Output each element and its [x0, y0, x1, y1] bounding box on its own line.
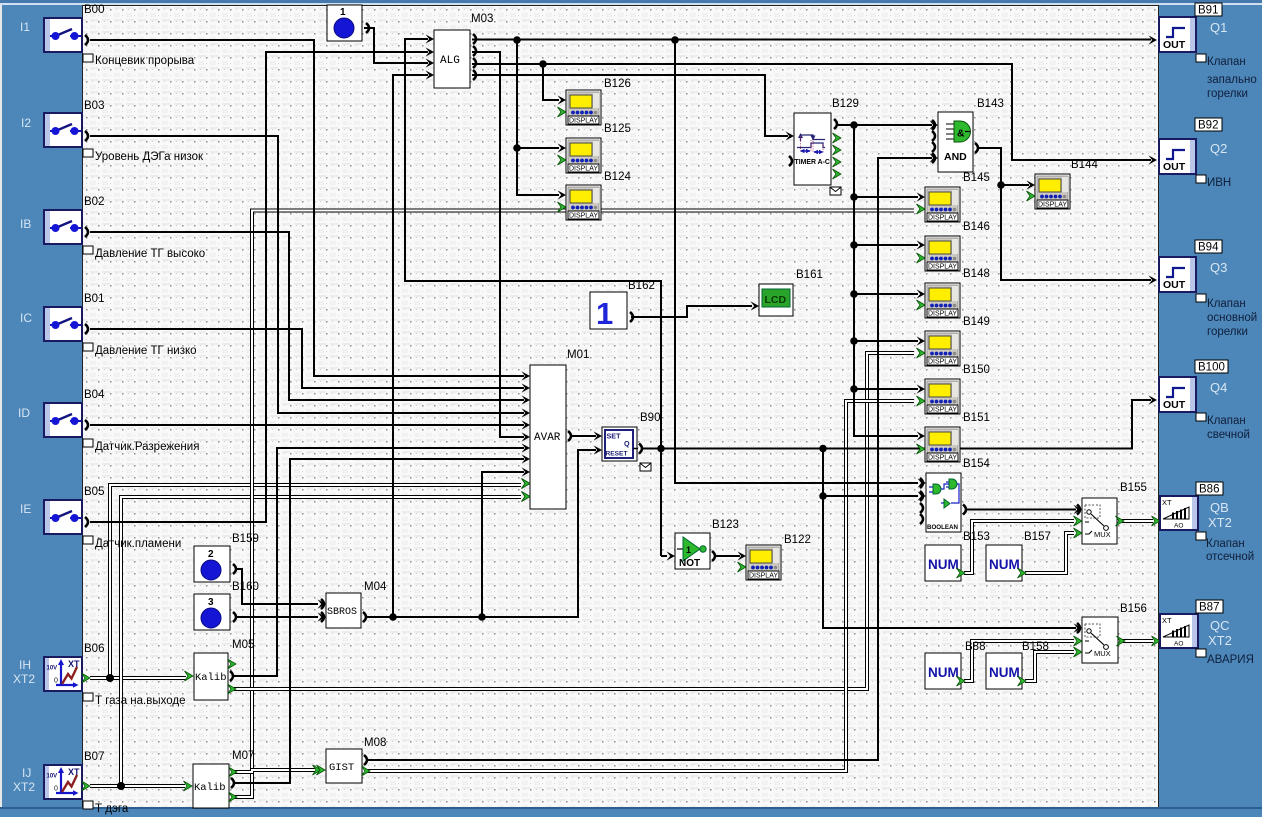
- output Q2 block: [1159, 118, 1231, 189]
- svg-text:B125: B125: [604, 123, 631, 135]
- svg-text:TIMER A-C: TIMER A-C: [795, 159, 830, 166]
- svg-text:B92: B92: [1198, 120, 1218, 132]
- svg-text:QB: QB: [1210, 500, 1229, 515]
- svg-text:B100: B100: [1198, 362, 1225, 374]
- svg-text:запально: запально: [1207, 74, 1257, 86]
- svg-text:M01: M01: [567, 349, 589, 361]
- svg-text:2: 2: [208, 549, 214, 560]
- svg-text:B161: B161: [796, 269, 823, 281]
- svg-text:B01: B01: [84, 293, 104, 305]
- wire ALG out1 branch to BOOLEAN input1: [671, 36, 926, 487]
- top window strip: [0, 0, 1262, 3]
- selector MUX B155: [1074, 482, 1147, 544]
- LCD indicator B161: [759, 269, 823, 316]
- input IB discrete switch block: [20, 196, 205, 260]
- svg-text:B145: B145: [963, 172, 990, 184]
- wire ID B04 to AVAR input5: [90, 420, 530, 429]
- svg-text:Q: Q: [624, 439, 630, 448]
- svg-text:XT2: XT2: [1208, 515, 1232, 530]
- svg-text:XT2: XT2: [1208, 633, 1232, 648]
- DISPLAY B126: [558, 78, 631, 125]
- wire SBROS branch riser to ALG input4: [393, 70, 434, 617]
- wire RS B90 net riser to ALG input1 and NOT B123: [405, 34, 675, 560]
- svg-text:RESET: RESET: [606, 451, 628, 458]
- DISPLAY B148: [917, 268, 990, 318]
- svg-text:ALG: ALG: [440, 55, 460, 67]
- canvas top border: [82, 5, 1159, 6]
- wire ALG out2 to AVAR input6: [472, 52, 530, 442]
- left IO panel: [2, 5, 82, 807]
- svg-text:B159: B159: [232, 533, 259, 545]
- svg-text:B149: B149: [963, 316, 990, 328]
- svg-text:горелки: горелки: [1207, 326, 1248, 338]
- svg-text:XT2: XT2: [13, 672, 35, 686]
- input IC discrete switch block: [20, 293, 197, 357]
- svg-text:MUX: MUX: [1094, 530, 1111, 539]
- wire const B159 to SBROS input1: [236, 569, 326, 609]
- output QC XT2 analog output block: [1160, 600, 1254, 666]
- svg-text:B86: B86: [1199, 484, 1219, 496]
- svg-text:1: 1: [686, 545, 691, 555]
- svg-text:ID: ID: [18, 406, 30, 420]
- svg-text:Kalib: Kalib: [194, 782, 226, 794]
- svg-text:Q3: Q3: [1210, 260, 1227, 275]
- input ID discrete switch block: [18, 389, 199, 453]
- svg-text:SBROS: SBROS: [327, 607, 357, 618]
- analog wire Kalib M07 out3 to DISPLAY B145 value input: [234, 211, 914, 798]
- svg-text:B07: B07: [84, 751, 104, 763]
- bottom scrollbar strip: [0, 807, 1262, 817]
- svg-text:B148: B148: [963, 268, 990, 280]
- svg-text:3: 3: [208, 597, 214, 608]
- svg-text:B05: B05: [84, 486, 104, 498]
- wire SBROS M04 out to RS B90 RESET: [365, 445, 602, 620]
- wire IB B02 to AVAR input3: [90, 232, 530, 405]
- svg-text:IH: IH: [19, 658, 31, 672]
- logic gate NOT B123: [675, 519, 739, 569]
- output Q1 block: [1159, 3, 1257, 100]
- input I1 discrete switch block: [20, 4, 195, 67]
- svg-text:SET: SET: [607, 432, 622, 441]
- svg-text:IC: IC: [20, 311, 32, 325]
- svg-text:B151: B151: [963, 412, 990, 424]
- constant NUM B158: [986, 641, 1049, 689]
- input IE discrete switch block: [20, 486, 181, 550]
- svg-text:Клапан: Клапан: [1206, 538, 1245, 550]
- svg-text:GIST: GIST: [329, 762, 354, 774]
- svg-text:1: 1: [340, 7, 346, 18]
- left panel edge line: [0, 5, 2, 807]
- DISPLAY B146: [917, 221, 990, 271]
- RS trigger B90 SET Q RESET: [602, 412, 660, 471]
- wire I2 B03 to AVAR input4: [90, 136, 530, 418]
- svg-text:Q1: Q1: [1210, 20, 1227, 35]
- svg-text:M07: M07: [232, 750, 254, 762]
- DISPLAY B149: [917, 316, 990, 366]
- function block BOOLEAN B154: [920, 458, 990, 532]
- svg-text:B02: B02: [84, 196, 104, 208]
- macro block SBROS M04: [321, 581, 387, 628]
- canvas left border: [82, 5, 83, 807]
- svg-text:Давление ТГ низко: Давление ТГ низко: [95, 345, 197, 357]
- wire BOOLEAN B154 out to MUX B155 input1: [966, 505, 1082, 514]
- wire ALG out1 to Q1 with trunk branches: [472, 35, 1157, 44]
- output Q4 block: [1159, 360, 1250, 441]
- constant NUM B157: [986, 531, 1051, 581]
- output Q3 block: [1159, 240, 1257, 338]
- svg-text:Концевик прорыва: Концевик прорыва: [95, 55, 195, 67]
- wire GIST M08 out1 to AND B143 input4: [366, 153, 938, 760]
- svg-text:B90: B90: [640, 412, 660, 424]
- wire RS B90 net branch to BOOLEAN input2 and MUX B156 input1: [819, 449, 1082, 633]
- svg-text:AVAR: AVAR: [534, 432, 561, 444]
- svg-text:Q4: Q4: [1210, 380, 1227, 395]
- svg-text:M04: M04: [364, 581, 387, 593]
- analog wire MUX B156 out to QC analog output: [1122, 636, 1160, 646]
- svg-text:MUX: MUX: [1094, 649, 1111, 658]
- DISPLAY B125: [558, 123, 631, 173]
- wire trunk to DISPLAY column B145 B146 B148 B149 B150 B151: [850, 125, 925, 441]
- wire Kalib M05 out2 to AVAR input7: [234, 443, 530, 676]
- svg-text:B126: B126: [604, 78, 631, 90]
- output QB XT2 analog output block: [1160, 482, 1254, 563]
- svg-text:Клапан: Клапан: [1207, 415, 1246, 427]
- input IJ XT2 analog input block: [13, 751, 129, 815]
- constant block B000 value 1: [327, 5, 369, 41]
- svg-text:B124: B124: [604, 171, 631, 183]
- svg-text:B123: B123: [712, 519, 739, 531]
- svg-text:B88: B88: [965, 641, 985, 653]
- analog wire IH B06 to Kalib M05 and AVAR slow input1: [90, 479, 530, 683]
- analog wire NUM B88 to MUX B156 input2: [964, 641, 1074, 681]
- function block TIMER A-C B129: [789, 98, 859, 195]
- wire ALG out3 branch to DISPLAY B126: [539, 60, 566, 104]
- wire ALG out4 to TIMER B129 input: [472, 75, 794, 141]
- svg-text:NOT: NOT: [679, 558, 700, 569]
- DISPLAY B150: [917, 364, 990, 414]
- input IH XT2 analog input block: [13, 643, 185, 707]
- svg-text:B143: B143: [977, 98, 1004, 110]
- svg-text:B06: B06: [84, 643, 104, 655]
- svg-text:Датчик.Разрежения: Датчик.Разрежения: [95, 441, 199, 453]
- wire AVAR M01 out to RS trigger B90 SET: [570, 431, 602, 440]
- DISPLAY B144: [1027, 159, 1099, 209]
- analog wire Kalib M07 out1 to GIST input: [234, 765, 321, 775]
- DISPLAY B122: [738, 534, 811, 580]
- analog wire NUM B153 to MUX B155 input2: [964, 521, 1074, 573]
- svg-text:B154: B154: [963, 458, 990, 470]
- wire SBROS branch riser to AVAR input9: [482, 467, 530, 617]
- analog wire NUM B157 to MUX B155 input3: [1025, 533, 1074, 573]
- wire Kalib M07 out2 to AVAR input8: [235, 454, 530, 783]
- svg-text:BOOLEAN: BOOLEAN: [927, 524, 958, 531]
- svg-text:I1: I1: [20, 20, 30, 34]
- svg-text:Давление ТГ высоко: Давление ТГ высоко: [95, 248, 205, 260]
- svg-text:AND: AND: [944, 151, 967, 163]
- svg-text:B94: B94: [1198, 242, 1219, 254]
- svg-text:B00: B00: [84, 4, 104, 16]
- macro block Kalib M05: [185, 639, 255, 700]
- wire AND B143 out to Q3 and DISPLAY B144: [978, 148, 1157, 285]
- DISPLAY B151: [917, 412, 990, 462]
- wire NOT B123 out to DISPLAY B122: [714, 551, 746, 560]
- analog wire MUX B155 out to QB analog output: [1122, 516, 1160, 526]
- svg-text:ИВН: ИВН: [1207, 177, 1231, 189]
- svg-text:M05: M05: [232, 639, 254, 651]
- wire ALG out1 branch to DISPLAY B125 and B124: [513, 36, 566, 199]
- svg-text:B153: B153: [963, 531, 990, 543]
- wire IC B01 to AVAR input2: [90, 329, 530, 393]
- svg-text:M03: M03: [471, 13, 493, 25]
- svg-text:отсечной: отсечной: [1206, 551, 1254, 563]
- macro block GIST M08: [317, 737, 387, 783]
- svg-text:B122: B122: [784, 534, 811, 546]
- svg-text:B146: B146: [963, 221, 990, 233]
- svg-text:B158: B158: [1022, 641, 1049, 653]
- svg-text:B87: B87: [1199, 602, 1219, 614]
- wire IE B05 to ALG input2: [90, 47, 434, 522]
- macro block AVAR M01: [522, 349, 590, 509]
- constant block B160 value 3: [194, 581, 259, 630]
- svg-text:B03: B03: [84, 100, 104, 112]
- svg-text:Kalib: Kalib: [195, 672, 227, 684]
- wire RS B90 Q out to MUX area and Q4: [642, 395, 1157, 452]
- svg-text:B04: B04: [84, 389, 105, 401]
- svg-text:горелки: горелки: [1207, 88, 1248, 100]
- wire ALG out3 to Q2: [472, 64, 1157, 165]
- svg-text:B160: B160: [232, 581, 259, 593]
- wire const B160 to SBROS input2: [236, 612, 326, 621]
- svg-text:B150: B150: [963, 364, 990, 376]
- svg-text:XT2: XT2: [13, 780, 35, 794]
- wire const B000 to ALG input3: [364, 28, 434, 68]
- DISPLAY B145: [917, 172, 990, 222]
- svg-text:B91: B91: [1198, 5, 1218, 17]
- svg-text:QC: QC: [1210, 618, 1230, 633]
- svg-text:Клапан: Клапан: [1207, 56, 1246, 68]
- function block ALG M03: [434, 13, 493, 88]
- svg-text:B144: B144: [1071, 159, 1098, 171]
- svg-text:LCD: LCD: [765, 294, 787, 306]
- svg-text:IE: IE: [20, 502, 31, 516]
- canvas right border: [1158, 5, 1159, 807]
- svg-text:&: &: [957, 128, 965, 140]
- svg-text:B129: B129: [832, 98, 859, 110]
- input I2 discrete switch block: [21, 100, 204, 163]
- svg-text:B156: B156: [1120, 603, 1147, 615]
- DISPLAY B124: [558, 171, 632, 220]
- svg-text:Q2: Q2: [1210, 141, 1227, 156]
- wire I1 B00 to AVAR input1: [90, 40, 530, 381]
- svg-text:I2: I2: [21, 116, 31, 130]
- svg-text:B157: B157: [1024, 531, 1051, 543]
- macro block Kalib M07: [184, 750, 255, 808]
- svg-text:Т дэга: Т дэга: [95, 803, 129, 815]
- svg-text:IB: IB: [20, 217, 31, 231]
- right IO panel: [1159, 5, 1262, 807]
- selector MUX B156: [1074, 603, 1147, 663]
- constant block B162 value 1: [590, 280, 655, 331]
- constant NUM B153: [925, 531, 990, 581]
- svg-text:B155: B155: [1120, 482, 1147, 494]
- logic gate AND B143: [932, 98, 1004, 172]
- svg-text:IJ: IJ: [22, 766, 31, 780]
- svg-text:Датчик.пламени: Датчик.пламени: [95, 538, 181, 550]
- svg-text:АВАРИЯ: АВАРИЯ: [1207, 654, 1254, 666]
- svg-text:Клапан: Клапан: [1207, 298, 1246, 310]
- analog wire Kalib M05 out3 to DISPLAY B149 value input: [234, 353, 914, 689]
- analog wire GIST M08 out2 to DISPLAY B150 value input: [366, 401, 914, 771]
- svg-text:M08: M08: [364, 737, 386, 749]
- wire const B162 to LCD B161: [631, 301, 759, 317]
- svg-text:свечной: свечной: [1207, 429, 1250, 441]
- constant block B159 value 2: [194, 533, 259, 582]
- analog wire IJ B07 to Kalib M07 and AVAR slow input2: [90, 492, 530, 791]
- svg-text:1: 1: [596, 296, 613, 331]
- wire TIMER B129 out to AND B143 input1: [838, 120, 938, 129]
- constant NUM B88: [925, 641, 985, 689]
- analog wire NUM B158 to MUX B156 input3: [1025, 652, 1074, 681]
- svg-text:Уровень ДЭГа низок: Уровень ДЭГа низок: [95, 151, 204, 163]
- svg-text:основной: основной: [1207, 312, 1257, 324]
- svg-text:Т газа на.выходе: Т газа на.выходе: [95, 695, 185, 707]
- svg-text:B162: B162: [628, 280, 655, 292]
